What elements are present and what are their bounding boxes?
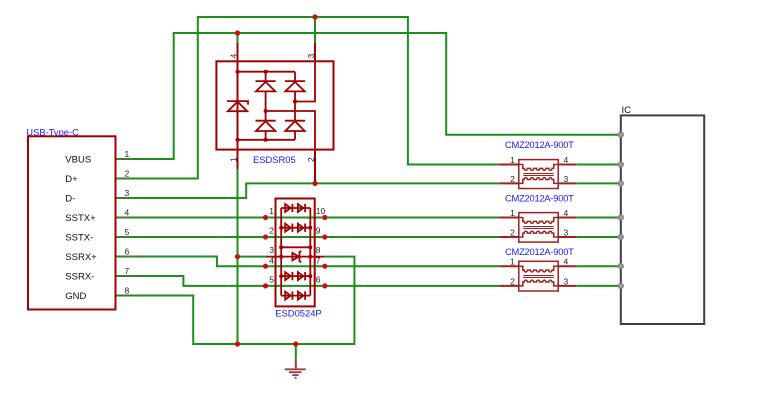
ground bar 2 [289, 371, 302, 373]
svg-text:2: 2 [510, 276, 515, 286]
U2 top winding [519, 165, 558, 171]
ESDSR05 middle column verticals [265, 72, 267, 140]
U2 pin 1 stub [499, 164, 518, 166]
U4 pin 1 stub [499, 265, 518, 267]
wire ESDSR05 pin4 top green stub [237, 33, 239, 43]
junction dot ground vertical / rail [235, 341, 240, 346]
wire choke U2 pin3 to IC [576, 182, 621, 184]
diode D_right_top bar [285, 80, 305, 82]
svg-text:6: 6 [125, 247, 130, 257]
wire SSRX+ net: connector pin6 through ESD0524P pins 4/7 to choke U4 pin1 [116, 257, 500, 267]
common mode choke U4 CMZ2012A-900T (bottom) [499, 266, 576, 286]
ground symbol [285, 359, 306, 378]
U4 bottom winding [519, 280, 558, 286]
wire SSRX- net: connector pin7 through ESD0524P pins 5/6 to choke U4 pin2 [116, 276, 500, 286]
IC pin connection dot SSTX+ [618, 215, 623, 220]
ESD0524P row2 line [281, 227, 310, 229]
svg-text:1: 1 [510, 257, 515, 267]
svg-text:7: 7 [316, 256, 321, 266]
junction dot ground vertical / ESD0524P pin3 branch [235, 254, 240, 259]
ground stem lower (red) [295, 359, 297, 369]
U3 box [519, 213, 558, 243]
IC pin connection dot VBUS [618, 132, 623, 137]
svg-text:3: 3 [564, 228, 569, 238]
ESDSR05 pin 2 red stub [314, 150, 316, 182]
svg-text:SSRX+: SSRX+ [65, 252, 97, 263]
U2 bottom winding [519, 178, 558, 184]
ESD0524P row4 line pin3-pin8 [267, 256, 325, 258]
wire SSTX+ net: connector pin4 through ESD0524P pins 1/10 to choke U3 pin1 [116, 217, 500, 219]
svg-text:USB-Type-C: USB-Type-C [26, 126, 79, 137]
junction dot ESD0524P pin1 [263, 215, 268, 220]
ESD0524P row1 diode pair [285, 204, 291, 212]
diode D_mid_bot triangle [256, 121, 275, 131]
wire choke U4 pin3 to IC [576, 285, 621, 287]
U3 pin 2 stub [499, 236, 518, 238]
ESDSR05 bottom rail [238, 139, 296, 141]
wire choke U4 pin4 to IC [576, 265, 621, 267]
diode D_mid_bot bar [256, 120, 276, 122]
ESD0524P right inner vertical [309, 208, 311, 296]
junction dot ESD0524P pin5 [263, 283, 268, 288]
svg-text:IC: IC [622, 105, 632, 116]
ESDSR05 internal junction dots [236, 70, 240, 74]
svg-text:D-: D- [65, 194, 75, 205]
ESD0524P box [276, 199, 315, 307]
IC pin connection dot SSTX- [618, 234, 623, 239]
svg-text:4: 4 [125, 208, 130, 218]
ESDSR05 pin3 internal connection [295, 61, 315, 101]
TVS array ESDSR05 [216, 43, 333, 182]
wire D+ net: connector pin2 to ESDSR05 pin3 and choke U2 pin1 [116, 17, 500, 179]
svg-text:ESD0524P: ESD0524P [275, 308, 321, 319]
U2 pin 4 stub [558, 164, 576, 166]
svg-text:2: 2 [510, 228, 515, 238]
connector USB-Type-C box [28, 136, 116, 309]
pin 5 stub [116, 236, 136, 238]
svg-text:D+: D+ [65, 174, 78, 185]
svg-text:3: 3 [269, 245, 274, 255]
svg-text:SSTX+: SSTX+ [65, 213, 96, 224]
U2 box [519, 160, 558, 189]
junction dot ESD0524P pin7 [322, 264, 327, 269]
svg-text:2: 2 [510, 174, 515, 184]
ESDSR05 pin 3 red stub [314, 43, 316, 61]
svg-text:GND: GND [65, 291, 86, 302]
svg-text:5: 5 [269, 274, 274, 284]
ESD0524P row6 diode pair [285, 292, 291, 300]
junction dot D- / ESDSR05 pin2 [312, 181, 317, 186]
wire SSTX- net: connector pin5 through ESD0524P pins 2/9 to choke U3 pin2 [116, 236, 500, 238]
svg-text:2: 2 [125, 169, 130, 179]
U4 pin 3 stub [558, 285, 576, 287]
wire choke U3 pin4 to IC [576, 217, 621, 219]
svg-text:8: 8 [316, 245, 321, 255]
diode D_mid_top triangle [256, 82, 275, 92]
ESD0524P left inner vertical [280, 208, 282, 296]
ground bar 3 [292, 374, 298, 376]
IC box [621, 115, 704, 324]
ESDSR05 pin2 internal connection [266, 111, 315, 150]
zener D_left bar with hook [227, 101, 248, 105]
junction dot ESD0524P pin6 [322, 283, 327, 288]
junction dot ground stem / rail [293, 341, 298, 346]
svg-text:6: 6 [316, 274, 321, 284]
pin 6 stub [116, 256, 136, 258]
diode D_right_bot bar [285, 120, 305, 122]
svg-text:3: 3 [564, 174, 569, 184]
wire choke U3 pin3 to IC [576, 236, 621, 238]
svg-text:2: 2 [269, 225, 274, 235]
ESDSR05 right column verticals [294, 72, 296, 140]
svg-text:4: 4 [564, 257, 569, 267]
junction dot D+ / ESDSR05 pin3 [312, 14, 317, 19]
ESDSR05 box [216, 61, 333, 149]
TVS array ESD0524P [276, 199, 315, 307]
pin 4 stub [116, 217, 136, 219]
ESD0524P row1 line [281, 207, 310, 209]
svg-text:3: 3 [306, 54, 316, 59]
svg-text:CMZ2012A-900T: CMZ2012A-900T [505, 139, 574, 150]
wire ground symbol stem upper [295, 344, 297, 359]
connector pin stubs (dark) [116, 159, 136, 296]
U3 pin 3 stub [558, 236, 576, 238]
wire ESDSR05 pin3 top green stub [314, 17, 316, 43]
junction dot VBUS / ESDSR05 pin4 [235, 30, 240, 35]
svg-text:CMZ2012A-900T: CMZ2012A-900T [505, 246, 574, 257]
svg-text:CMZ2012A-900T: CMZ2012A-900T [505, 192, 574, 203]
junction dot ESD0524P pin9 [322, 234, 327, 239]
svg-text:1: 1 [229, 157, 239, 162]
wire VBUS net: connector pin1 to ESDSR05 pin4 and IC [116, 33, 621, 159]
svg-text:7: 7 [125, 266, 130, 276]
svg-text:3: 3 [564, 276, 569, 286]
svg-text:9: 9 [316, 225, 321, 235]
junction dot ESD0524P pin2 [263, 234, 268, 239]
U4 top winding [519, 266, 558, 272]
common mode choke U3 CMZ2012A-900T (middle) [499, 218, 576, 238]
svg-text:4: 4 [228, 54, 238, 59]
IC pin connection dot SSRX- [618, 283, 623, 288]
svg-text:3: 3 [125, 188, 130, 198]
ESD0524P row5 line [281, 275, 310, 277]
U2 pin 2 stub [499, 182, 518, 184]
pin 2 stub [116, 178, 136, 180]
pin 7 stub [116, 275, 136, 277]
pin 1 stub [116, 158, 136, 160]
U3 core lines [523, 227, 554, 229]
U4 core lines [523, 276, 554, 278]
svg-text:VBUS: VBUS [65, 155, 91, 166]
junction dot ESD0524P pin4 [263, 264, 268, 269]
pin 8 stub [116, 295, 136, 297]
svg-text:2: 2 [306, 157, 316, 162]
wire branch to ESD0524P pin3 [238, 256, 267, 258]
svg-text:1: 1 [125, 149, 130, 159]
U3 pin 1 stub [499, 217, 518, 219]
U2 core lines [523, 174, 554, 176]
U4 pin 4 stub [558, 265, 576, 267]
svg-text:4: 4 [269, 256, 274, 266]
diode D_right_top triangle [285, 82, 304, 92]
ESD0524P row3 plain line [281, 246, 310, 248]
common mode choke U2 CMZ2012A-900T (top) [499, 165, 576, 184]
wires layer [116, 17, 621, 359]
ESD0524P row6 line [281, 295, 310, 297]
U3 bottom winding [519, 231, 558, 237]
ground bar 1 [285, 368, 306, 370]
diode D_mid_top bar [256, 80, 276, 82]
IC pin connection dot D- [618, 181, 623, 186]
svg-text:1: 1 [269, 206, 274, 216]
svg-text:4: 4 [564, 208, 569, 218]
wire D- net: connector pin3 to ESDSR05 pin2 and choke U2 pin2 [116, 183, 500, 198]
junction dot ESD0524P pin10 [322, 215, 327, 220]
svg-text:4: 4 [564, 155, 569, 165]
svg-text:ESDSR05: ESDSR05 [253, 154, 296, 165]
IC pin connection dot D+ [618, 162, 623, 167]
ESD0524P internal junction dots [279, 226, 283, 230]
U2 pin 3 stub [558, 182, 576, 184]
ground bar 4 [295, 377, 297, 379]
wire GND net: connector pin8 down to ground rail [116, 257, 355, 344]
ESDSR05 pin 4 / pin 1 vertical (red) [237, 43, 239, 169]
svg-text:1: 1 [510, 208, 515, 218]
pin 3 stub [116, 197, 136, 199]
U3 pin 4 stub [558, 217, 576, 219]
IC pin connection dot SSRX+ [618, 264, 623, 269]
svg-text:10: 10 [316, 206, 326, 216]
ESD0524P row5 diode pair [285, 272, 291, 280]
U3 top winding [519, 218, 558, 224]
zener D_left triangle [228, 102, 247, 112]
U4 box [519, 261, 558, 291]
diode D_right_bot triangle [285, 121, 304, 131]
svg-text:8: 8 [125, 286, 130, 296]
svg-text:1: 1 [510, 155, 515, 165]
ESD0524P row4 single zener diode [292, 253, 299, 260]
wire ground vertical from ESDSR05 pin1 down to rail [237, 169, 239, 344]
U4 pin 2 stub [499, 285, 518, 287]
svg-text:5: 5 [125, 227, 130, 237]
svg-text:SSTX-: SSTX- [65, 233, 93, 244]
wire choke U2 pin4 to IC [576, 164, 621, 166]
svg-text:SSRX-: SSRX- [65, 272, 94, 283]
ESDSR05 top rail [238, 71, 296, 73]
ESD0524P row2 diode pair [285, 224, 291, 232]
